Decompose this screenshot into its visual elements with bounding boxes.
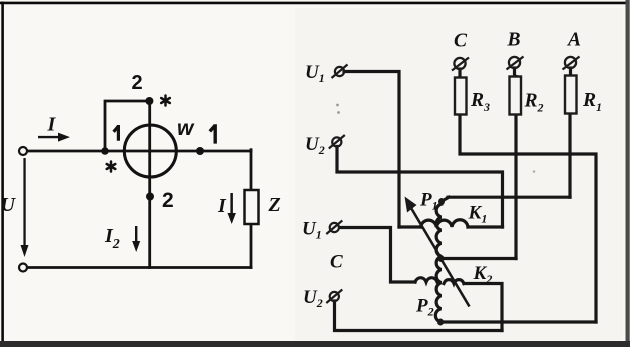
arrow: I down through Z (228, 193, 236, 224)
terminal C (phase) (452, 58, 469, 71)
terminal U2 (bottom) (326, 290, 342, 304)
terminal B (phase) (507, 57, 524, 70)
coil: vertical winding P1/P2 (435, 204, 442, 322)
terminal A (phase) (563, 57, 580, 70)
arrow: I2 down (132, 226, 140, 252)
wire: R1 vertical (568, 114, 571, 198)
label 1 (junction) (114, 125, 119, 141)
svg-text:U: U (1, 194, 17, 216)
wire: U2b down then right (335, 301, 503, 331)
terminal top-left (open circle) (19, 147, 27, 155)
wire: vertical through wattmeter (148, 101, 151, 268)
wire: junction dot to R2 (443, 257, 516, 260)
wire: U1b right, down, to P2 left arm (341, 228, 415, 283)
node: P1 top dot (438, 198, 445, 205)
node: P2 bottom dot (437, 319, 444, 326)
wire: R2 top neck (513, 68, 516, 77)
coil P2 left humps (415, 278, 437, 282)
wire: R1 top neck (569, 68, 572, 76)
scan speckles (336, 104, 339, 107)
coil K2 right humps (444, 280, 464, 284)
wire: Z bottom to bottom wire (250, 224, 253, 268)
arrow: voltage U down left side (21, 158, 29, 257)
wire: right branch down to Z (250, 150, 253, 190)
border frame right (625, 0, 629, 347)
wire: K1 arm plain right part (468, 225, 503, 228)
wire: K2 arm right then down (464, 284, 502, 331)
node: dot 2 bottom of voltage coil (146, 193, 154, 201)
svg-text:2: 2 (132, 72, 143, 94)
node: junction dot 1 (generator side) (101, 147, 109, 155)
resistor R2 (510, 77, 522, 115)
impedance Z rectangle (245, 190, 259, 224)
label 1 (right node) (210, 124, 215, 143)
wire: bottom long from P2 dot to right vertical (441, 320, 597, 323)
wire: U1a terminal to right then down (344, 72, 399, 228)
border frame top (0, 2, 629, 5)
wire: left circuit top horizontal (27, 150, 251, 153)
border frame bottom (0, 341, 630, 347)
resistor R3 (455, 78, 467, 115)
coil K1 horizontal humps (421, 220, 469, 227)
terminal bottom-left (open circle) (19, 264, 27, 272)
wire: K1 arm plain left part (399, 225, 421, 228)
wire: bracket up from junction 1 to node 2 (105, 101, 149, 151)
svg-text:I: I (47, 114, 57, 136)
svg-text:I: I (217, 195, 227, 217)
terminal U2 (upper) (329, 135, 345, 149)
svg-text:w: w (177, 117, 195, 140)
wire: horizontal to R1 (448, 196, 570, 199)
resistor R1 (565, 76, 577, 114)
wire: left circuit bottom horizontal (27, 266, 251, 269)
terminal U1 (lower) (326, 221, 342, 235)
asterisk bottom (current coil mark) (107, 162, 116, 172)
node: dot 1 right (load side) (196, 147, 204, 155)
asterisk top (voltage coil mark) (161, 96, 170, 106)
arrow: current I into circuit (38, 133, 70, 142)
wire: R3 top neck (458, 69, 461, 78)
svg-text:2: 2 (162, 189, 174, 212)
wiper arrow for P1/P2 (405, 197, 470, 307)
svg-text:Z: Z (268, 194, 281, 216)
wire: from P1 top dot to R1 line (442, 197, 450, 201)
wire: U2a terminal down, right, down to K1 end (337, 147, 503, 228)
wire: R3 down, right, long right vertical (460, 115, 596, 323)
node: P1/P2 junction dot (438, 255, 445, 262)
terminal U1 (top) (332, 65, 348, 79)
node: dot 2 top of voltage coil (145, 97, 153, 105)
border frame left (1, 2, 4, 347)
op-amp? no: wattmeter W circle (124, 125, 176, 177)
wire: R2 vertical (514, 77, 517, 259)
